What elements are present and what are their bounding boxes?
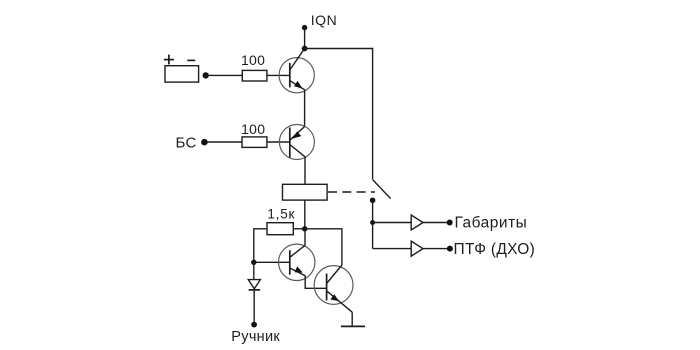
wire battery to R1 (209, 74, 243, 76)
wire Q3 emitter to Q4 base (305, 275, 326, 288)
node switch fixed contact dot (370, 198, 376, 204)
arrow symbol buffer1 (411, 215, 423, 230)
node junction R3 dot (302, 226, 307, 231)
node junction collector Q1 (302, 46, 308, 52)
svg-text:Габариты: Габариты (455, 215, 528, 232)
svg-text:1,5к: 1,5к (267, 206, 295, 221)
node battery terminal dot (203, 72, 209, 78)
svg-text:Ручник: Ручник (231, 329, 280, 345)
wire junction down to Q3 collector (304, 229, 306, 246)
node ПТФ terminal dot (447, 246, 453, 252)
wire IQN stub (304, 28, 306, 49)
svg-text:IQN: IQN (311, 12, 338, 28)
wire R3 right to junction (293, 228, 304, 230)
wire relay link dashed (328, 191, 375, 193)
wire buffer1 to Габариты dot (423, 222, 447, 224)
arrow symbol buffer2 (411, 241, 423, 256)
wire node to diode (253, 262, 255, 279)
wire right trunk (372, 48, 374, 180)
wire БС to R2 (208, 141, 243, 143)
wire R2 to Q2 base (267, 141, 290, 143)
transistor Q2 (279, 125, 314, 160)
wire buffer2 to ПТФ dot (423, 248, 447, 250)
wire switch down branch (372, 200, 374, 248)
wire Q1 emitter to Q2 emitter (304, 89, 306, 126)
wire Q2 collector to relay coil (304, 156, 306, 184)
transistor Q4 (314, 265, 353, 312)
transistor Q1 (279, 49, 314, 93)
svg-text:ПТФ (ДХО): ПТФ (ДХО) (454, 241, 536, 258)
node branch dot (370, 220, 375, 225)
wire branch2 to buffer2 (373, 248, 412, 250)
relay contact switch blade (373, 180, 391, 199)
wire diode to Ручник terminal (253, 290, 255, 325)
node Ручник terminal dot (251, 322, 257, 328)
wire top horizontal (305, 48, 373, 50)
wire R1 to Q1 base (267, 74, 290, 76)
wire node to Q3 base (254, 261, 290, 263)
resistor R1 value 100 (241, 52, 267, 81)
wire coil bottom to junction (304, 200, 306, 229)
node Габариты terminal dot (447, 220, 453, 226)
diode VD1 (248, 280, 260, 290)
node БС terminal dot (201, 139, 208, 146)
wire R3 left corner down (254, 229, 267, 262)
resistor R2 value 100 (241, 121, 267, 147)
wire branch1 to buffer1 (373, 222, 412, 224)
battery GB1 (164, 55, 199, 83)
svg-text:100: 100 (241, 52, 265, 68)
node IQN terminal dot (302, 25, 307, 30)
node left node dot (251, 260, 256, 265)
transistor Q3 (279, 244, 315, 280)
wire Q4 emitter to ground (351, 312, 353, 326)
svg-text:100: 100 (241, 121, 265, 137)
resistor R3 value 1,5k (267, 206, 295, 234)
relay coil K1 (283, 184, 328, 200)
ground (341, 325, 365, 327)
svg-text:БС: БС (176, 134, 197, 151)
wire junction to Q4 collector top (305, 229, 342, 265)
